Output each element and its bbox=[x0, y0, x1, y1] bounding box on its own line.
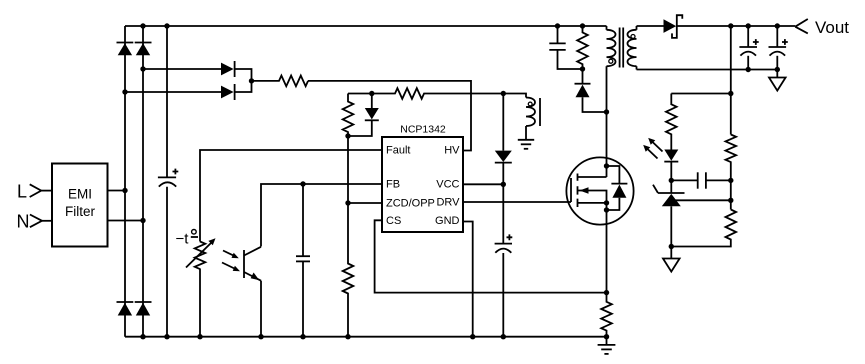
ground aux bbox=[518, 126, 534, 149]
node VCC bbox=[501, 182, 506, 187]
regulator U3 TL431 bbox=[653, 180, 685, 246]
svg-text:N: N bbox=[17, 212, 30, 232]
capacitor C2 FB bbox=[296, 184, 310, 337]
node L-startup bbox=[122, 89, 127, 94]
wire CS net bbox=[375, 220, 607, 292]
wire EMI out upper to L-line bbox=[108, 190, 126, 192]
diode D11 opto LED bbox=[643, 138, 678, 181]
svg-text:Fault: Fault bbox=[386, 145, 410, 157]
terminal Vout bbox=[795, 18, 849, 37]
inductor L1 aux winding bbox=[503, 94, 540, 127]
diode D4 bridge lower-right bbox=[135, 302, 152, 316]
wire L-line vertical bbox=[124, 26, 126, 337]
diode D8 VCC bbox=[495, 94, 512, 185]
wire TL431 ref bbox=[671, 199, 731, 201]
resistor R9 current sense bbox=[601, 293, 612, 337]
resistor R2 OVP series bbox=[372, 88, 504, 99]
resistor R5 snubber bbox=[577, 26, 588, 69]
capacitor C4 snubber bbox=[549, 26, 582, 69]
wire FB net bbox=[261, 184, 382, 247]
node fb split bbox=[728, 91, 733, 96]
transistor Q1 MOSFET bbox=[566, 157, 633, 224]
node source bbox=[604, 200, 609, 205]
wire VCC pin bbox=[463, 183, 503, 185]
node bus-C3 bbox=[501, 334, 506, 339]
thermistor RT1 NTC bbox=[186, 238, 216, 269]
wire startup upper from N bbox=[143, 68, 221, 70]
wire fb divider vertical bbox=[730, 26, 732, 135]
optocoupler U2 transistor bbox=[222, 247, 261, 337]
IC U1 NCP1342 bbox=[382, 137, 463, 232]
wire DRV to gate bbox=[463, 201, 571, 203]
capacitor C3 VCC bbox=[495, 184, 513, 336]
wire top DC rail bbox=[125, 25, 607, 27]
node divider-cap bbox=[728, 178, 733, 183]
svg-text:CS: CS bbox=[386, 215, 401, 227]
node rail-C4 bbox=[555, 23, 560, 28]
capacitor C5 output bbox=[739, 26, 758, 70]
svg-text:−t: −t bbox=[176, 231, 190, 248]
node drain bbox=[604, 163, 609, 168]
ground output chassis bbox=[769, 70, 786, 91]
wire drain bbox=[606, 66, 608, 177]
svg-text:HV: HV bbox=[444, 145, 460, 157]
svg-text:EMI: EMI bbox=[68, 186, 92, 201]
capacitor C6 output bbox=[769, 26, 788, 70]
ground secondary chassis bbox=[663, 247, 680, 272]
node CS-sense bbox=[604, 290, 609, 295]
node divider-ref bbox=[728, 198, 733, 203]
wire to ZCD pin bbox=[347, 136, 349, 203]
svg-text:Vout: Vout bbox=[815, 18, 849, 37]
resistor R8 LED series bbox=[666, 94, 677, 150]
capacitor C7 compensation bbox=[671, 172, 731, 188]
node rail-C6 bbox=[775, 23, 780, 28]
node return-C5 bbox=[746, 67, 751, 72]
node rail-C5 bbox=[746, 23, 751, 28]
node OVP bottom bbox=[345, 133, 350, 138]
svg-text:FB: FB bbox=[386, 179, 400, 191]
capacitor C1 bulk bbox=[158, 26, 178, 337]
node ZCD bbox=[345, 200, 350, 205]
wire D6 out bbox=[235, 81, 252, 92]
node bus-N bbox=[140, 334, 145, 339]
wire GND pin to bus bbox=[463, 222, 473, 337]
resistor R7 divider lower bbox=[671, 210, 736, 247]
wire EMI out lower to N-line bbox=[108, 220, 144, 222]
wire D5 out bbox=[235, 69, 252, 81]
node clamp-drain bbox=[604, 109, 609, 114]
wire R3 top to node bbox=[348, 93, 372, 95]
node snubber bottom bbox=[580, 66, 585, 71]
svg-text:Filter: Filter bbox=[65, 204, 96, 219]
node body diode bbox=[604, 207, 609, 212]
EMI filter box bbox=[52, 164, 108, 247]
diode D5 startup upper bbox=[221, 61, 235, 77]
node rail-fb divider bbox=[728, 23, 733, 28]
node startup join bbox=[249, 78, 254, 83]
wire output rail bbox=[677, 25, 795, 27]
terminal L bbox=[17, 181, 52, 201]
svg-text:NCP1342: NCP1342 bbox=[400, 124, 446, 136]
resistor R4 ZCD lower bbox=[343, 203, 354, 337]
diode D1 bridge upper-left bbox=[117, 43, 134, 56]
node fb ground join bbox=[669, 244, 674, 249]
node bus-NTC bbox=[197, 334, 202, 339]
wire main ground bus bbox=[125, 336, 607, 338]
node LED-comp bbox=[669, 178, 674, 183]
svg-text:DRV: DRV bbox=[436, 197, 460, 209]
diode D9 clamp bbox=[575, 69, 607, 112]
resistor R1 startup bbox=[252, 76, 309, 87]
node bus-bulk bbox=[164, 334, 169, 339]
node N-startup bbox=[140, 66, 145, 71]
wire fb split horizontal bbox=[671, 93, 731, 95]
diode D3 bridge lower-left bbox=[117, 302, 134, 316]
diode D7 bbox=[348, 94, 379, 137]
svg-text:ZCD/OPP: ZCD/OPP bbox=[386, 198, 435, 210]
wire NTC to bus bbox=[199, 269, 201, 337]
ground main bbox=[598, 337, 616, 354]
wire Fault net bbox=[200, 150, 382, 242]
transformer T1 primary bbox=[607, 26, 616, 66]
diode D10 output schottky bbox=[664, 15, 683, 38]
svg-text:L: L bbox=[17, 181, 27, 201]
resistor R6 divider upper bbox=[726, 135, 737, 210]
node aux-VCC bbox=[501, 91, 506, 96]
terminal N bbox=[17, 212, 53, 232]
wire secondary return rail bbox=[637, 69, 778, 71]
transformer T1 secondary bbox=[628, 26, 637, 70]
svg-text:VCC: VCC bbox=[436, 179, 459, 191]
svg-text:GND: GND bbox=[435, 215, 460, 227]
wire secondary top to D10 bbox=[637, 25, 664, 27]
node EMI-L bbox=[122, 188, 127, 193]
wire ZCD stub bbox=[348, 202, 382, 204]
diode D6 startup lower bbox=[221, 84, 235, 100]
node rail-bulkcap bbox=[164, 23, 169, 28]
node rail-R5 bbox=[580, 23, 585, 28]
node bus-C2 bbox=[300, 334, 305, 339]
wire source down bbox=[606, 203, 608, 293]
node OVP top bbox=[369, 91, 374, 96]
diode D2 bridge upper-right bbox=[135, 43, 152, 56]
wire R1 to HV bbox=[308, 81, 471, 151]
node bus-R4 bbox=[345, 334, 350, 339]
node return-C6 bbox=[775, 67, 780, 72]
node bus-R9 bbox=[604, 334, 609, 339]
label -t deg bbox=[176, 230, 199, 248]
resistor R3 fault clamp bbox=[343, 94, 354, 137]
node FB-cap bbox=[300, 181, 305, 186]
transformer T1 core bbox=[620, 28, 624, 68]
wire startup lower from L bbox=[125, 91, 221, 93]
node bus-GND bbox=[470, 334, 475, 339]
node EMI-N bbox=[140, 218, 145, 223]
node bus-opto bbox=[258, 334, 263, 339]
node rail-D2 bbox=[140, 23, 145, 28]
wire N-line vertical bbox=[142, 26, 144, 337]
